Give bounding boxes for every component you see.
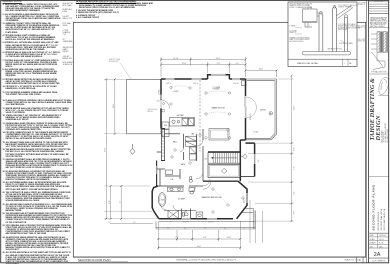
info table: [370, 234, 386, 248]
svg-text:LINE FROST FITTING: LINE FROST FITTING: [327, 49, 343, 51]
third riser under diagonal: [343, 17, 345, 52]
svg-text:P.O. BOX 13325: P.O. BOX 13325: [383, 131, 385, 142]
right wall: [245, 79, 247, 140]
callout texts: [290, 3, 361, 51]
svg-text:MASTER BEDROOM: MASTER BEDROOM: [202, 196, 222, 199]
svg-text:TYP. WALL SECTION: TYP. WALL SECTION: [371, 71, 387, 74]
svg-text:PH. (530) 577-4068: PH. (530) 577-4068: [387, 129, 389, 142]
sparse fragment mini column: [63, 3, 74, 67]
svg-text:2x6 WALL: 2x6 WALL: [158, 89, 161, 95]
svg-text:4'-6": 4'-6": [293, 210, 295, 214]
svg-text:W/D: W/D: [164, 125, 168, 127]
svg-text:TUB: TUB: [161, 199, 164, 201]
svg-text:4030: 4030: [157, 101, 160, 103]
svg-text:5'-2": 5'-2": [236, 63, 240, 65]
bottom dims: [158, 238, 240, 240]
svg-text:10-26-04: 10-26-04: [379, 235, 385, 237]
lower wide notes: [3, 100, 73, 264]
svg-text:14'-6": 14'-6": [113, 103, 115, 108]
svg-text:LIN.: LIN.: [171, 179, 174, 181]
dim texts: [105, 58, 296, 248]
svg-text:RISER TYP.: RISER TYP.: [358, 4, 366, 6]
room labels: [161, 91, 267, 213]
revisions header: [369, 1, 389, 3]
svg-text:A: A: [359, 258, 361, 262]
svg-text:4030 SL: 4030 SL: [166, 83, 171, 85]
svg-text:LINE OF LOWER: LINE OF LOWER: [109, 59, 120, 61]
diagonal top right pipe: [336, 6, 352, 17]
svg-text:BATH: BATH: [181, 163, 186, 166]
project description block: [371, 184, 385, 230]
tub ellipse: [158, 193, 166, 207]
window labels: [108, 83, 259, 224]
furnace closet boxes: [190, 147, 197, 160]
svg-text:DECK: DECK: [260, 110, 266, 112]
svg-text:1/2" COPPER: 1/2" COPPER: [358, 3, 367, 5]
mini wall-section detail in title block: [371, 32, 389, 70]
svg-text:11'-6": 11'-6": [227, 237, 232, 239]
left upper wall + jog: [160, 79, 162, 129]
svg-text:7'-0": 7'-0": [293, 166, 295, 170]
svg-text:37'-0": 37'-0": [105, 147, 107, 152]
plan area box: [73, 22, 365, 257]
plan title bar line: [73, 256, 365, 258]
wet bar counter: [170, 118, 195, 127]
window openings (white gaps + sills): [156, 74, 257, 220]
stairs: [205, 152, 248, 178]
TAHOE DRAFTING & DESIGN logo text: [369, 78, 382, 142]
vertical pipe pair B: [332, 8, 334, 52]
master bedroom SE octagon cuts: [237, 181, 247, 219]
svg-text:ROOF BELOW: ROOF BELOW: [109, 61, 119, 63]
svg-text:0426: 0426: [379, 246, 383, 248]
svg-text:RICK J. SORRELL: RICK J. SORRELL: [381, 130, 383, 143]
svg-text:11'-10": 11'-10": [173, 58, 179, 60]
svg-text:3/4" COPPER: 3/4" COPPER: [358, 39, 367, 41]
svg-text:GAME ROOM: GAME ROOM: [211, 106, 224, 109]
svg-text:9'-0": 9'-0": [203, 237, 207, 239]
left general notes column: [3, 1, 23, 3]
stub WH to pipe A: [317, 12, 320, 14]
lake tahoe map sketch: [379, 77, 389, 95]
svg-text:BELOW: BELOW: [148, 111, 154, 113]
svg-text:41'-0": 41'-0": [197, 246, 202, 248]
svg-text:SECOND FLOOR PLAN: SECOND FLOOR PLAN: [78, 258, 111, 262]
upper-right deck: [246, 79, 277, 140]
svg-text:WRITTEN CONSENT.: WRITTEN CONSENT.: [370, 26, 385, 28]
svg-text:2A: 2A: [374, 252, 381, 258]
left dims: [114, 79, 116, 134]
landing under stairs: [208, 164, 240, 177]
svg-text:10'-0": 10'-0": [259, 69, 264, 71]
svg-text:6'-6": 6'-6": [293, 147, 295, 151]
svg-text:4040 SL: 4040 SL: [244, 198, 246, 203]
smoke detector note block: [76, 1, 155, 21]
top wall: [161, 78, 208, 80]
svg-text:42" RAIL: 42" RAIL: [253, 131, 259, 134]
vanity double sink: [168, 187, 203, 218]
bath west wall: [156, 161, 158, 187]
title block frame: [368, 0, 370, 262]
svg-text:5'-0": 5'-0": [258, 159, 260, 162]
dashed loft divider: [199, 80, 201, 152]
svg-text:3050 SH: 3050 SH: [208, 222, 213, 224]
svg-text:SECOND FLOOR PLANS: SECOND FLOOR PLANS: [371, 184, 375, 230]
svg-text:8'-8": 8'-8": [109, 200, 111, 204]
octagon tub bay: [152, 186, 159, 219]
dim tick marks: [105, 59, 292, 249]
shower: [168, 211, 179, 219]
svg-text:LIVING AREA = 1,513 SQ. FT. (I: LIVING AREA = 1,513 SQ. FT. (INCLUDES LO…: [176, 258, 237, 261]
keynote diamond right of stairs: [243, 154, 247, 159]
svg-text:SOUTH LAKE TAHOE, CA: SOUTH LAKE TAHOE, CA: [383, 208, 386, 230]
W/D stack: [162, 122, 169, 137]
top dims: [161, 59, 246, 61]
svg-text:14'-0": 14'-0": [293, 105, 295, 110]
svg-text:1: 1: [344, 63, 345, 65]
svg-text:SCALE: SCALE: [370, 238, 375, 241]
right dims: [291, 76, 293, 221]
svg-text:LOFT: LOFT: [173, 91, 179, 93]
svg-text:MEYERS RESIDENCE: MEYERS RESIDENCE: [378, 211, 380, 230]
loft door arc on west wall: [161, 100, 170, 109]
bottom wall: [159, 218, 233, 220]
svg-text:LINE OF ROOF: LINE OF ROOF: [148, 109, 158, 111]
exterior walls (thick): [152, 75, 254, 219]
svg-text:THESE PLANS ARE THE: THESE PLANS ARE THE: [370, 16, 387, 19]
svg-text:DRAWN: DRAWN: [370, 242, 377, 245]
svg-text:4 OF 7 SHEETS: 4 OF 7 SHEETS: [372, 261, 386, 263]
water heater: [303, 9, 318, 22]
svg-text:R.J.S.: R.J.S.: [379, 243, 384, 245]
svg-text:3030 SH: 3030 SH: [233, 83, 238, 85]
svg-text:DN: DN: [205, 159, 208, 161]
svg-text:3050 SH: 3050 SH: [183, 222, 188, 224]
svg-text:DATE: DATE: [370, 234, 374, 237]
svg-text:22'-0": 22'-0": [216, 58, 221, 60]
svg-text:HALL: HALL: [173, 141, 177, 144]
door arcs: [161, 140, 212, 211]
chimney box NE corner: [242, 81, 247, 86]
hall cabinets: [186, 136, 197, 146]
pool table: [209, 129, 229, 141]
caption: [288, 58, 357, 60]
thin roof-below rect (left wing): [127, 79, 161, 134]
vertical pipe pair A: [318, 14, 320, 52]
elbows: [320, 13, 323, 14]
slider door opening on right wall to deck: [245, 96, 247, 118]
svg-text:6068 SGD: 6068 SGD: [250, 114, 252, 121]
closet dark band: [161, 128, 165, 161]
bottom deck: [156, 208, 255, 229]
svg-text:SHUT DOWN: SHUT DOWN: [338, 29, 347, 31]
svg-text:12'-6": 12'-6": [182, 63, 187, 65]
svg-text:1' LIFT VENT TO BLOW OF: 1' LIFT VENT TO BLOW OF: [338, 5, 357, 7]
svg-text:REVISIONS: REVISIONS: [374, 1, 384, 3]
svg-text:SHUT OFF: SHUT OFF: [358, 26, 365, 28]
note above left wing: [109, 59, 120, 63]
horizontal bottom pipe: [302, 52, 351, 55]
WC toilet: [183, 213, 189, 217]
recessed can lights: [162, 86, 273, 213]
svg-text:LOWEST OPENING: LOWEST OPENING: [338, 7, 352, 9]
svg-text:W.C.: W.C.: [184, 211, 188, 213]
svg-text:WATER LINE DETAIL: WATER LINE DETAIL: [297, 62, 319, 65]
hall toilet + sink by stairs: [166, 170, 193, 182]
svg-text:OR COPIED WITHOUT: OR COPIED WITHOUT: [370, 24, 386, 26]
svg-text:7'-0": 7'-0": [175, 237, 179, 239]
svg-text:1/4"=1': 1/4"=1': [379, 239, 385, 241]
svg-text:WET BAR: WET BAR: [177, 114, 185, 117]
svg-text:M. BATH: M. BATH: [178, 197, 185, 200]
svg-text:3351 DEER TRAIL UNIT A: 3351 DEER TRAIL UNIT A: [380, 208, 383, 230]
svg-text:FAU: FAU: [191, 132, 194, 135]
keynote diamond: [130, 144, 135, 154]
svg-text:5'-8": 5'-8": [217, 63, 221, 65]
interior walls: [157, 129, 238, 219]
svg-text:5'-0": 5'-0": [293, 191, 295, 195]
svg-text:4030 SL: 4030 SL: [193, 83, 198, 85]
dashed switch legs: [171, 86, 230, 205]
svg-text:DESIGN: DESIGN: [375, 115, 382, 141]
svg-text:JOB: JOB: [370, 246, 373, 248]
svg-text:1/2" HOSE: 1/2" HOSE: [290, 31, 297, 33]
